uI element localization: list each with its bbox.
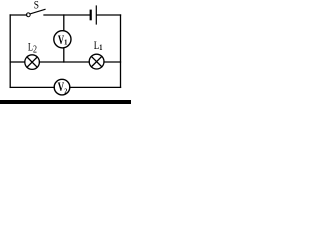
wire bottom-row right [70, 86, 121, 88]
bottom black bar [0, 100, 131, 104]
wire right edge [120, 15, 122, 87]
wire left edge [9, 15, 11, 87]
svg-text:2: 2 [33, 44, 37, 55]
label L2 [28, 41, 38, 54]
label L1 [94, 40, 103, 52]
wire lamp-row left [10, 61, 25, 63]
wire V1 bottom stub [63, 48, 65, 62]
voltmeter U2 circle [54, 79, 70, 95]
label V2 [58, 81, 68, 96]
label V1 [58, 33, 68, 47]
battery [91, 6, 97, 24]
wire lamp-row right [104, 61, 121, 63]
wire top-middle segment [44, 14, 90, 16]
lamp L1 [89, 54, 104, 69]
wire V1 top stub [63, 15, 65, 31]
wire lamp-row middle [39, 61, 89, 63]
wire top-right segment [97, 14, 121, 16]
svg-text:2: 2 [64, 88, 67, 96]
wire top-left segment [10, 14, 27, 16]
voltmeter U1 circle [54, 31, 71, 48]
svg-text:S: S [34, 0, 39, 12]
wire bottom-row left [10, 86, 54, 88]
svg-text:1: 1 [64, 39, 68, 47]
lamp L2 [25, 55, 40, 70]
switch S [26, 13, 30, 17]
svg-text:1: 1 [99, 43, 103, 52]
svg-text:V: V [58, 81, 65, 95]
